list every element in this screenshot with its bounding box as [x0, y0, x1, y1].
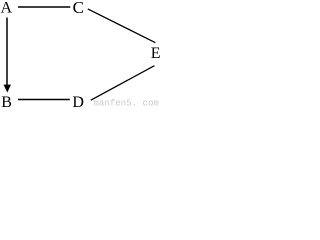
arrowhead A-B — [4, 85, 12, 93]
wire edge A-C — [18, 6, 70, 8]
svg-text:D: D — [72, 94, 84, 107]
svg-text:C: C — [73, 0, 84, 17]
svg-text:manfen5. com: manfen5. com — [93, 98, 158, 108]
svg-text:A: A — [1, 0, 13, 16]
svg-text:B: B — [1, 94, 12, 107]
wire edge B-D — [18, 99, 70, 101]
wire edge D-E — [91, 66, 155, 101]
svg-text:E: E — [151, 45, 160, 62]
wire edge A-B shaft — [6, 18, 8, 87]
wire edge C-E — [88, 9, 156, 43]
